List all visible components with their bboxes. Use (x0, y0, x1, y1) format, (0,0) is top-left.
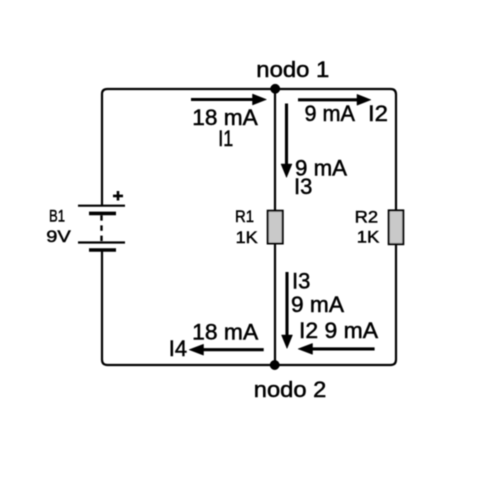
battery B1 plus polarity mark (113, 191, 123, 201)
node nodo 1 junction dot (271, 84, 280, 93)
wire: right branch vertical through R2 (395, 95, 397, 356)
battery B1 long plate (bottom cell) (78, 241, 125, 243)
svg-text:B1: B1 (49, 207, 65, 226)
node nodo 2 junction dot (270, 360, 279, 369)
svg-text:1K: 1K (236, 228, 259, 247)
svg-text:I3: I3 (292, 269, 310, 294)
current arrow I2 bottom (9 mA toward nodo 2, leftward) (298, 343, 375, 354)
battery B1 inter-cell dashed link (100, 215, 102, 242)
battery B1 long plate (top cell) (78, 205, 125, 207)
wire: bottom-right rounded corner (391, 355, 397, 365)
wire: middle branch from node 1 down to R1 (274, 89, 276, 211)
svg-text:R1: R1 (235, 207, 254, 226)
current arrow I1 (18 mA toward nodo 1) (191, 94, 267, 105)
resistor R2 body (389, 210, 404, 244)
svg-text:1K: 1K (357, 228, 380, 247)
current arrow I3 top (9 mA down middle branch) (281, 104, 292, 178)
svg-text:R2: R2 (355, 208, 379, 227)
svg-text:I4: I4 (169, 336, 187, 361)
svg-text:18 mA: 18 mA (192, 320, 258, 345)
svg-text:I3: I3 (294, 174, 312, 199)
wire: left branch lower segment (101, 250, 103, 360)
wire: left branch upper segment with top-left corner (102, 89, 108, 205)
wire: top wire from node 1 to top-right corner (275, 89, 396, 95)
battery B1 short thick plate (bottom cell) (89, 248, 116, 252)
svg-text:nodo 2: nodo 2 (254, 377, 326, 402)
svg-text:I1: I1 (218, 126, 233, 151)
svg-text:I2 9 mA: I2 9 mA (299, 318, 378, 343)
wire: middle branch from R1 down to node 2 (274, 244, 276, 365)
svg-text:nodo 1: nodo 1 (256, 57, 329, 82)
resistor R1 body (268, 211, 283, 244)
svg-text:9 mA: 9 mA (291, 292, 344, 317)
wire: top wire from left corner to node 1 (108, 88, 276, 90)
battery B1 short thick plate (top cell) (89, 212, 116, 216)
current arrow I4 (18 mA away from nodo 2, leftward) (189, 344, 264, 355)
wire: bottom wire from right corner to node 2 (275, 364, 391, 366)
current arrow I3 bottom (9 mA toward nodo 2) (282, 272, 293, 349)
svg-text:9 mA: 9 mA (305, 101, 356, 126)
svg-text:I2: I2 (368, 101, 388, 126)
wire: bottom wire from node 2 to bottom-left corner (102, 360, 275, 366)
svg-text:9V: 9V (46, 227, 71, 246)
current arrow I2 top (9 mA away from nodo 1) (298, 94, 371, 105)
